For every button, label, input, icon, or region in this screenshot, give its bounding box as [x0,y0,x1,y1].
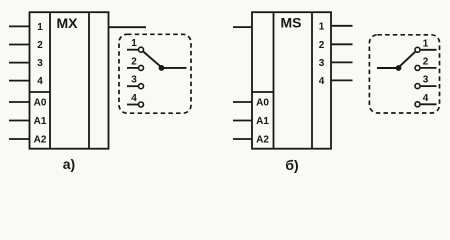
MX address section divider [30,91,51,93]
MS right column divider [311,12,313,149]
svg-text:3: 3 [131,75,137,86]
svg-text:4: 4 [319,76,325,87]
switch arm of S2 [399,52,416,68]
contact 3 wire of S1 [127,85,138,87]
svg-text:A2: A2 [256,135,269,146]
svg-text:б): б) [285,157,298,173]
MS address section divider [252,91,274,93]
svg-text:3: 3 [423,75,429,86]
svg-text:2: 2 [37,40,43,51]
wire input of MS [233,26,252,28]
wire output 3 of MS [331,61,353,63]
svg-text:а): а) [63,156,75,172]
svg-text:2: 2 [423,56,429,67]
switch S1 equivalent dashed box [119,34,191,113]
svg-text:A0: A0 [34,98,47,109]
contact 1 terminal of S2 [415,47,420,52]
svg-text:A1: A1 [34,116,47,127]
contact 4 wire of S2 [420,103,437,105]
wire input 1 of MX [9,25,30,27]
switch arm of S1 [143,52,161,68]
svg-text:MX: MX [57,15,79,31]
svg-text:A0: A0 [256,98,269,109]
wire output 1 of MS [331,25,353,27]
svg-text:2: 2 [319,40,325,51]
svg-text:4: 4 [37,76,43,87]
svg-text:1: 1 [37,22,43,33]
contact 3 wire of S2 [420,85,437,87]
wire output 4 of MS [331,79,353,81]
svg-text:A2: A2 [34,135,47,146]
contact 2 terminal of S1 [139,65,144,70]
svg-text:3: 3 [37,58,43,69]
svg-text:2: 2 [131,56,137,67]
wire address A1 of MX [9,120,30,122]
pivot junction of S1 [159,65,165,71]
wire output 2 of MS [331,43,353,45]
wire input 3 of MX [9,62,30,64]
wire address A0 of MS [233,101,252,103]
svg-text:1: 1 [131,38,137,49]
contact 3 terminal of S1 [139,84,144,89]
contact 3 terminal of S2 [415,84,420,89]
wire output of MX [109,26,147,28]
svg-text:1: 1 [423,38,429,49]
contact 1 wire of S2 [420,49,437,51]
demultiplexer U2 (MS) box outline [252,12,331,149]
wire address A2 of MS [233,138,252,140]
svg-text:4: 4 [131,93,137,104]
switch S2 equivalent dashed box [369,35,439,113]
wire pivot input of S2 [377,67,399,69]
svg-text:3: 3 [319,58,325,69]
contact 1 terminal of S1 [139,47,144,52]
wire address A1 of MS [233,120,252,122]
contact 2 wire of S2 [420,67,437,69]
pivot junction of S2 [396,65,402,71]
MX right column divider [88,12,90,149]
contact 2 terminal of S2 [415,65,420,70]
wire input 4 of MX [9,80,30,82]
MS left column divider [273,12,275,149]
contact 4 wire of S1 [127,104,138,106]
contact 4 terminal of S2 [415,102,420,107]
wire input 2 of MX [9,44,30,46]
svg-text:A1: A1 [256,116,269,127]
contact 4 terminal of S1 [139,102,144,107]
MX left column divider [49,12,51,149]
svg-text:MS: MS [281,15,302,31]
multiplexer U1 (MX) box outline [30,12,109,149]
wire address A0 of MX [9,101,30,103]
svg-text:1: 1 [319,21,325,32]
wire pivot output of S1 [162,67,187,69]
svg-text:4: 4 [423,93,429,104]
wire address A2 of MX [9,138,30,140]
contact 2 wire of S1 [127,67,138,69]
contact 1 wire of S1 [127,49,138,51]
